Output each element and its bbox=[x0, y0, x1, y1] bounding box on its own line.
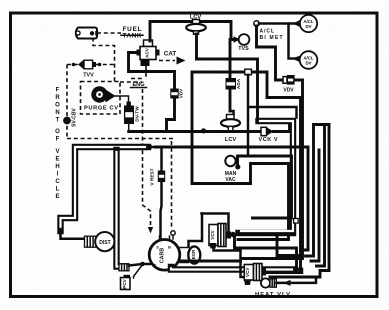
FRONT OF VEHICLE label bbox=[55, 88, 60, 201]
fuel tank label bbox=[121, 26, 143, 40]
wire LCV stem to junction bbox=[195, 34, 198, 59]
EGR valve bbox=[180, 246, 200, 263]
wire bimet down to VDV right bbox=[257, 26, 284, 80]
air cleaner valve A/CL DV lower bbox=[300, 51, 318, 69]
distributor connector bbox=[85, 236, 97, 247]
arrow into A/CL DV top bbox=[293, 20, 300, 26]
wire dashed box top extension bbox=[120, 81, 143, 83]
A/CL BI MET label bbox=[260, 29, 283, 42]
wire dashed horizontal lower bbox=[67, 138, 173, 140]
connector on F port line bbox=[119, 264, 129, 271]
VCV1 bottom cap bbox=[210, 243, 217, 249]
wire outlined hose middle bbox=[239, 121, 294, 233]
wire carb V port bottom line bbox=[171, 267, 295, 270]
wire weave bridge bbox=[314, 123, 330, 126]
wire into distributor bbox=[61, 229, 85, 239]
arrow into A/CL DV lower bbox=[293, 56, 300, 62]
wire VCV1 bottom to VCV2 bbox=[214, 248, 246, 277]
canister bbox=[76, 28, 98, 39]
node dot left of TVV bbox=[72, 63, 76, 67]
wire VCV2 outlined hose bbox=[263, 268, 300, 274]
wire nub down weave bbox=[248, 75, 297, 156]
wire MAN VAC snake bbox=[238, 156, 292, 218]
wire junction y57 to weave W1 bbox=[197, 59, 258, 118]
arrow to catalyst bbox=[177, 57, 186, 65]
wire F port line bbox=[129, 264, 150, 266]
purge dashed box bbox=[81, 82, 121, 115]
distributor DIST bbox=[95, 232, 114, 251]
vacuum switch TVS bbox=[239, 34, 250, 45]
air bypass AGA bbox=[226, 78, 237, 90]
wire thick main hose left bbox=[61, 147, 149, 231]
wire VCK V to riser bbox=[274, 125, 290, 132]
wire top main from ACV to TVS bbox=[150, 22, 236, 42]
wire diagonal to PCV bbox=[134, 265, 143, 279]
wire dashed into carb with port circle bbox=[171, 141, 173, 230]
wire bimet to A/CL DV top bbox=[259, 22, 295, 25]
wire DV-TW stem down bbox=[128, 124, 130, 132]
wire VDV right down weave bbox=[241, 80, 303, 259]
wire weave vertical v316 bbox=[311, 150, 319, 261]
wire dashed canister to fuel tank label bbox=[97, 32, 121, 34]
port nub on branch bbox=[245, 69, 252, 75]
wire weave vertical v311 bbox=[306, 125, 314, 257]
node dot on y131 wire bbox=[201, 128, 206, 133]
wire branch y73 weave bbox=[192, 72, 301, 268]
arrow into heat valve bbox=[283, 280, 291, 286]
wire U-bend ACV to VDV left bbox=[129, 53, 175, 89]
heat valve HEAT VLV bbox=[261, 278, 277, 287]
wire dashed TVV line bbox=[67, 64, 115, 66]
node dot VCV1 output bbox=[230, 232, 235, 237]
wire VCV1 dot branch to weave bbox=[277, 236, 300, 256]
wire heat valve line bbox=[277, 278, 317, 283]
node dot right of TVV bbox=[98, 63, 102, 67]
manifold vacuum port MAN VAC bbox=[225, 156, 235, 166]
wire EGR bottom line bbox=[181, 260, 241, 263]
wire weave vertical v327 bbox=[321, 125, 329, 271]
arrow on hose bbox=[147, 144, 157, 151]
carburetor CARB bbox=[149, 236, 180, 270]
TVV valve bbox=[78, 60, 96, 70]
vacuum delay valve VDV right bbox=[283, 75, 295, 85]
delay valve DV-TW bbox=[124, 102, 134, 125]
wire dashed CAT line bbox=[159, 60, 175, 62]
vacuum delay valve VDV left bbox=[170, 89, 178, 99]
node dot carb F port bbox=[140, 262, 145, 267]
air cleaner valve A/CL DV top bbox=[300, 15, 317, 32]
control valve LCV upper bbox=[186, 20, 206, 35]
wire TVS drop through AGA to lower LCV bbox=[229, 40, 232, 112]
node dot on left dashed wire bbox=[63, 117, 71, 125]
PCV valve bbox=[121, 275, 131, 290]
bimetal sensor circle bbox=[254, 21, 259, 26]
vacuum control valve VCV1 bbox=[189, 214, 232, 247]
restrictor V REST line bbox=[161, 147, 162, 239]
wire long snake from top line down and across bbox=[192, 72, 289, 240]
wire weave right outer bbox=[270, 271, 329, 278]
control valve LCV lower bbox=[221, 111, 240, 131]
wire dashed canister down to TVV line bbox=[93, 38, 115, 82]
wire dashed left vertical bbox=[66, 65, 68, 139]
wire VDV left down to y131 bbox=[167, 99, 175, 132]
wire riser to distributor line bbox=[117, 150, 127, 267]
vacuum control valve VCV2 bbox=[244, 264, 266, 281]
air control valve ACV bbox=[137, 40, 160, 66]
restrictor valve V REST bbox=[158, 171, 165, 183]
wire purge to DV-TW bbox=[114, 96, 129, 103]
wire weave vertical v322 bbox=[317, 125, 325, 267]
wire main horizontal y131 bbox=[129, 130, 262, 133]
check valve VCK V bbox=[261, 127, 274, 135]
wire hose right of arrow bbox=[155, 147, 308, 250]
purge valve PURGE CV bbox=[91, 86, 115, 102]
wire branch down to A/CL DV lower bbox=[289, 24, 296, 59]
VCV2 bottom cap bbox=[244, 280, 251, 286]
wire dashed ENG down to carburetor bbox=[143, 89, 151, 227]
wire dashed ACV to ENG bbox=[131, 66, 146, 79]
